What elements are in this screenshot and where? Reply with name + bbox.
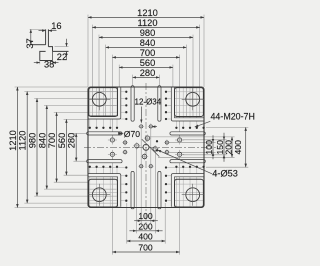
svg-text:100: 100 (204, 140, 214, 155)
extension lines left stack (15, 86, 88, 88)
T-slot vertical bottom-right (157, 173, 161, 207)
svg-text:12-Ø34: 12-Ø34 (135, 98, 162, 107)
svg-text:1120: 1120 (18, 131, 28, 151)
T-slot vertical top-left (131, 87, 135, 119)
T-slot horizontal left-lower (88, 159, 120, 163)
svg-text:38: 38 (44, 59, 54, 69)
hole centerline grid top-left block (89, 88, 91, 127)
hole O53 #1 (135, 144, 139, 148)
corner block top-left (89, 88, 118, 117)
extension lines top stack (87, 15, 89, 87)
svg-text:980: 980 (28, 133, 38, 149)
detail profile surface line (32, 44, 46, 46)
hole O34 side #3 (178, 138, 182, 142)
dimension 840 vertical (46, 106, 48, 190)
hole O34 #1 (140, 125, 143, 128)
svg-text:400: 400 (233, 140, 243, 155)
svg-text:16: 16 (51, 21, 61, 31)
T-slot horizontal left-upper (88, 131, 120, 135)
svg-text:22: 22 (57, 52, 67, 62)
tie-bar hole circle 4 (186, 188, 200, 202)
dimension 100 bottom (134, 220, 141, 222)
svg-text:1120: 1120 (138, 18, 158, 28)
dimension 560 horizontal (119, 66, 173, 68)
dimension 560 vertical (65, 119, 67, 175)
svg-text:560: 560 (140, 58, 156, 68)
dimension 1120 vertical (26, 92, 28, 204)
leader O70 (142, 139, 160, 156)
svg-text:280: 280 (67, 133, 77, 149)
hole O34 #4 (165, 151, 168, 154)
svg-text:Ø70: Ø70 (124, 129, 140, 139)
detail dim 22 (55, 46, 69, 48)
dimension 840 horizontal (106, 46, 187, 48)
detail dim 16 (39, 30, 46, 32)
hole centerline grid top-right block (175, 88, 177, 127)
svg-text:700: 700 (47, 133, 57, 149)
corner block top-right (175, 88, 204, 117)
svg-text:700: 700 (138, 243, 153, 253)
svg-text:980: 980 (140, 28, 156, 38)
hole O34 #2 (149, 125, 152, 128)
detail dim 37 (30, 28, 46, 30)
detail profile cavity box (40, 51, 53, 60)
dimension 100 right (212, 135, 214, 142)
arrowhead at upper-left slot end (118, 132, 124, 135)
T-slot L-shaped top-left (89, 88, 120, 118)
dimension 980 horizontal (99, 36, 193, 38)
tie-bar hole circle 3 (92, 188, 106, 202)
detail dim 38 (39, 61, 41, 65)
dimension 700 bottom (112, 251, 179, 253)
extension lines bottom stack (140, 129, 142, 223)
hole O53 #4 (142, 154, 146, 158)
dimension 400 right (245, 127, 247, 167)
hole O34 #7 (124, 151, 127, 154)
T-slot L-shaped bottom-right (173, 175, 204, 207)
dimension 980 vertical (36, 99, 38, 197)
dimension 200 bottom (129, 230, 136, 232)
corner block bottom-right (175, 179, 204, 207)
hole centerline grid bottom-left block (89, 168, 91, 206)
tie-bar hole circle 1 (92, 92, 106, 106)
svg-text:37: 37 (25, 38, 35, 48)
tie-bar hole circle 2 (186, 92, 200, 106)
svg-text:560: 560 (57, 133, 67, 149)
extension lines right stack (169, 141, 216, 143)
dimension 1120 horizontal (92, 26, 199, 28)
hole O34 side #2 (110, 152, 114, 156)
leader 4-O53 (158, 150, 212, 174)
hole O34 #8 (124, 141, 127, 144)
dimension 1210 horizontal (88, 16, 204, 18)
svg-text:840: 840 (37, 133, 47, 149)
dimension 200 right (231, 137, 233, 157)
dimension 700 horizontal (112, 56, 179, 58)
hole O34 side #1 (110, 138, 114, 142)
T-slot L-shaped top-right (173, 88, 204, 120)
vertical centerline (145, 83, 147, 224)
plate outline (88, 87, 204, 208)
svg-text:200: 200 (223, 140, 233, 155)
detail profile slot neck (46, 29, 49, 46)
hole centerline grid bottom-right block (175, 168, 177, 206)
leader 44-M20-7H (195, 121, 211, 127)
svg-text:200: 200 (138, 221, 153, 231)
detail profile step right (48, 47, 68, 52)
svg-text:700: 700 (140, 48, 156, 58)
hole O34 #5 (149, 165, 152, 168)
hole O34 side #4 (178, 152, 182, 156)
T-slot vertical bottom-left (131, 173, 135, 207)
svg-text:840: 840 (140, 38, 156, 48)
T-slot L-shaped bottom-left (89, 175, 120, 207)
hole O34 #3 (165, 141, 168, 144)
dimension 400 bottom (127, 240, 165, 242)
hole O34 #6 (140, 165, 143, 168)
center hole O70 (143, 144, 149, 150)
hole O53 #3 (153, 147, 157, 151)
leader 12-O34 (140, 107, 142, 123)
hole O53 #2 (145, 136, 149, 140)
dimension 280 vertical (75, 133, 77, 161)
dimension 1210 vertical (16, 87, 18, 208)
dimension 700 vertical (56, 112, 58, 182)
svg-text:280: 280 (140, 68, 156, 78)
svg-text:4-Ø53: 4-Ø53 (212, 168, 238, 178)
T-slot horizontal right-lower (172, 159, 204, 163)
horizontal centerline (84, 146, 216, 148)
T-slot horizontal right-upper (172, 131, 204, 135)
svg-text:1210: 1210 (137, 8, 158, 18)
dimension 280 horizontal (133, 76, 160, 78)
corner block bottom-left (89, 179, 118, 207)
T-slot vertical top-right (157, 87, 161, 119)
svg-text:400: 400 (138, 232, 153, 242)
svg-text:100: 100 (138, 211, 153, 221)
svg-text:1210: 1210 (8, 130, 18, 151)
44x M20-7H tapped holes (125, 91, 127, 93)
svg-text:44-M20-7H: 44-M20-7H (211, 112, 255, 122)
dimension 150 right (223, 133, 225, 140)
